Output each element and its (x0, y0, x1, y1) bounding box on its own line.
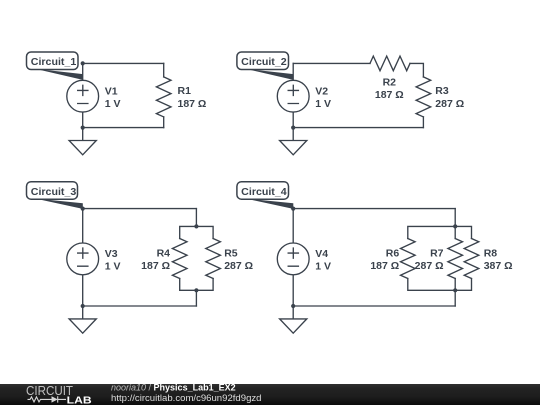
flag Circuit_2 (237, 52, 294, 80)
node circuit4 parallel top (453, 224, 457, 228)
node circuit4 top (291, 207, 295, 211)
resistor R7 (448, 239, 463, 279)
resistor R1 (156, 77, 171, 117)
voltage source V2 (277, 80, 309, 112)
resistor R5 (206, 239, 221, 279)
voltage source V4 (277, 243, 309, 275)
svg-text:1 V: 1 V (105, 98, 121, 110)
wire R7 bottom stub and stem to bottom rail circuit 4 (454, 279, 456, 307)
wire parallel top branch circuit 3 (R4/R5 top stubs) (180, 226, 213, 238)
wire R3 bottom stub (422, 117, 424, 128)
wire top rail circuit 3 (83, 208, 197, 210)
wire V3 bottom to node B3 (82, 275, 84, 306)
wire bottom rail circuit 3 (83, 305, 197, 307)
resistor R4 (172, 239, 187, 279)
svg-text:V3: V3 (105, 248, 118, 260)
node circuit3 bottom (81, 304, 85, 308)
footer bar (0, 383, 540, 405)
wire parallel bottom branch circuit 4 (R6/R8 bottom stubs) (408, 279, 472, 291)
svg-text:R6: R6 (386, 248, 400, 260)
flag Circuit_1 (27, 52, 83, 80)
wire V1 top to node A1 (82, 63, 84, 80)
svg-text:R5: R5 (224, 248, 238, 260)
wire bottom rail circuit 4 (293, 305, 455, 307)
svg-text:287 Ω: 287 Ω (224, 260, 253, 272)
wire R1 top stub (163, 63, 165, 77)
wire V4 bottom to node B4 (292, 275, 294, 306)
wire top rail circuit 4 (293, 208, 455, 210)
node circuit1 bottom (81, 126, 85, 130)
node circuit1 top (81, 61, 85, 65)
wire stem to parallel top node circuit 3 (195, 209, 197, 227)
svg-text:V2: V2 (315, 85, 328, 97)
svg-text:R7: R7 (430, 248, 444, 260)
ground circuit 3 (69, 306, 96, 333)
svg-text:V1: V1 (105, 85, 118, 97)
svg-text:1 V: 1 V (105, 261, 121, 273)
resistor R2 (370, 56, 410, 71)
resistor R3 (416, 77, 431, 117)
svg-text:R4: R4 (157, 248, 171, 260)
flag Circuit_3 (27, 182, 83, 209)
wire V4 top to node A4 (292, 209, 294, 243)
node circuit3 parallel bottom (194, 288, 198, 292)
svg-text:187 Ω: 187 Ω (178, 98, 207, 110)
wire V2 bottom to node B2 (292, 112, 294, 128)
svg-text:LAB: LAB (67, 396, 92, 405)
node circuit4 parallel bottom (453, 288, 457, 292)
svg-text:287 Ω: 287 Ω (435, 98, 464, 110)
wire parallel bottom branch circuit 3 (R4/R5 bottom stubs) (180, 279, 213, 291)
wire top rail circuit 2 to R2 (293, 62, 370, 64)
wire top rail circuit 1 (83, 62, 164, 64)
wire bottom rail circuit 2 (293, 127, 423, 129)
ground circuit 1 (69, 128, 96, 155)
logo resistor-diode waveform (28, 396, 67, 402)
svg-text:http://circuitlab.com/c96un92f: http://circuitlab.com/c96un92fd9gzd (111, 393, 262, 404)
svg-text:187 Ω: 187 Ω (370, 260, 399, 272)
resistor R8 (464, 239, 479, 279)
node circuit4 bottom (291, 304, 295, 308)
svg-text:nooria10 / Physics_Lab1_EX2: nooria10 / Physics_Lab1_EX2 (111, 383, 236, 393)
ground circuit 2 (280, 128, 307, 155)
node dots (81, 61, 458, 308)
wire stem to parallel top node circuit 4 (R7 top stub) (454, 209, 456, 239)
svg-text:Circuit_3: Circuit_3 (31, 187, 77, 198)
wire V2 top (292, 63, 294, 80)
svg-text:287 Ω: 287 Ω (415, 260, 444, 272)
wire R1 bottom stub (163, 117, 165, 128)
ground circuit 4 (280, 306, 307, 333)
svg-text:187 Ω: 187 Ω (141, 260, 170, 272)
wire stem from parallel bottom node circuit 3 (195, 290, 197, 306)
svg-text:Circuit_1: Circuit_1 (31, 57, 77, 68)
svg-text:V4: V4 (315, 248, 328, 260)
svg-text:187 Ω: 187 Ω (375, 89, 404, 101)
svg-text:1 V: 1 V (315, 98, 331, 110)
svg-text:R1: R1 (178, 85, 192, 97)
voltage source V3 (67, 243, 99, 275)
wire V1 bottom to node B1 (82, 112, 84, 128)
wire R2 right to R3 top stub (410, 63, 423, 77)
node circuit3 top (81, 207, 85, 211)
svg-text:Circuit_4: Circuit_4 (241, 187, 287, 198)
node circuit3 parallel top (194, 224, 198, 228)
svg-text:R3: R3 (435, 85, 449, 97)
node circuit2 bottom (291, 126, 295, 130)
svg-text:387 Ω: 387 Ω (484, 260, 513, 272)
wire parallel top branch circuit 4 (R6/R8 top stubs) (408, 226, 472, 238)
svg-text:Circuit_2: Circuit_2 (241, 57, 287, 68)
resistor R6 (401, 239, 416, 279)
wire bottom rail circuit 1 (83, 127, 164, 129)
wire V3 top to node A3 (82, 209, 84, 243)
svg-text:R8: R8 (484, 248, 498, 260)
flag Circuit_4 (237, 182, 293, 209)
svg-text:R2: R2 (383, 76, 397, 88)
voltage source V1 (67, 80, 99, 112)
svg-text:1 V: 1 V (315, 261, 331, 273)
